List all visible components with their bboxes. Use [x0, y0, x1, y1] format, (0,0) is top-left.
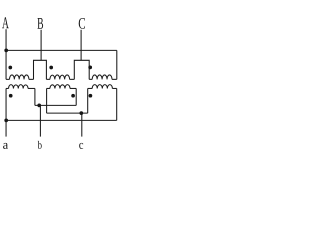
wire bracket tap B	[34, 60, 47, 79]
polarity dot winding ax	[9, 94, 13, 98]
winding BY primary coil 2 wire out	[70, 78, 75, 80]
polarity dot winding AX	[8, 66, 12, 70]
wire winding ax left end down to bus	[5, 88, 7, 120]
winding AX primary coil 1	[10, 75, 29, 79]
wire terminal b	[39, 105, 41, 136]
wire winding ax right end down to node b link	[34, 88, 36, 105]
junction dot node b	[37, 104, 41, 108]
winding CZ primary coil 3 wire out	[112, 78, 117, 80]
winding cz secondary coil 3 wire in	[88, 87, 93, 89]
terminal a label	[3, 143, 8, 149]
winding ax secondary coil 1	[9, 85, 29, 89]
wire terminal a	[5, 120, 7, 136]
winding CZ primary coil 3	[92, 75, 112, 79]
winding by secondary coil 2	[50, 85, 70, 89]
wire link H1 node b	[35, 104, 76, 106]
wire winding by right end down to link H1	[75, 88, 77, 105]
wire lead C down	[80, 30, 82, 61]
node A label	[2, 17, 9, 28]
wire terminal c	[81, 113, 83, 136]
wire link node c	[47, 112, 88, 114]
winding AX primary coil 1 wire in	[6, 78, 9, 80]
wire right side from top bus down to winding CZ end	[116, 50, 118, 79]
node B label	[37, 18, 43, 29]
wire bottom bus	[6, 119, 117, 121]
winding BY primary coil 2	[50, 75, 70, 79]
wire winding by left end down to node c link	[46, 88, 48, 113]
terminal b label	[38, 141, 42, 149]
junction dot node c	[79, 111, 83, 115]
winding ax secondary coil 1 wire out	[28, 87, 35, 89]
junction dot node A	[4, 49, 8, 53]
winding by secondary coil 2 wire in	[47, 87, 50, 89]
node C label	[79, 18, 85, 29]
winding cz secondary coil 3	[92, 85, 112, 89]
winding ax secondary coil 1 wire in	[6, 87, 9, 89]
wire lead A down	[5, 29, 7, 79]
wire top bus	[6, 49, 117, 51]
winding CZ primary coil 3 wire in	[89, 78, 92, 80]
winding BY primary coil 2 wire in	[46, 78, 50, 80]
wire bracket tap C	[74, 60, 89, 79]
winding AX primary coil 1 wire out	[29, 78, 34, 80]
winding by secondary coil 2 wire out	[70, 87, 76, 89]
polarity dot winding BY	[49, 66, 53, 70]
wire winding cz right end down to bus	[116, 88, 118, 120]
wire lead B down	[40, 30, 42, 61]
terminal c label	[79, 143, 83, 149]
winding cz secondary coil 3 wire out	[112, 87, 116, 89]
polarity dot winding CZ	[88, 66, 92, 70]
junction dot node a	[4, 119, 8, 123]
wire winding cz left end down to node c link	[87, 88, 89, 113]
polarity dot winding by	[71, 94, 75, 98]
polarity dot winding cz	[89, 94, 93, 98]
